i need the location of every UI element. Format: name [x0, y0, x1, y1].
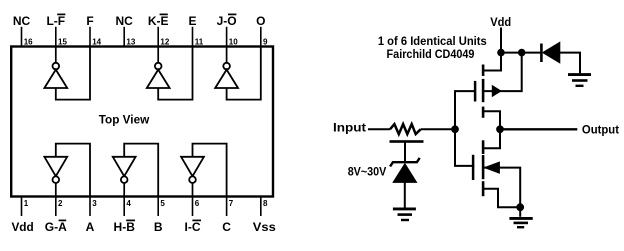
svg-text:15: 15 [58, 37, 67, 46]
svg-text:O: O [256, 14, 265, 28]
svg-text:8: 8 [263, 199, 268, 208]
svg-text:H-B: H-B [114, 220, 136, 234]
svg-text:I-C: I-C [185, 220, 201, 234]
svg-text:NC: NC [116, 14, 134, 28]
svg-text:5: 5 [160, 199, 165, 208]
svg-text:Output: Output [582, 122, 619, 136]
svg-text:J-O: J-O [217, 14, 237, 28]
svg-text:L-F: L-F [46, 14, 65, 28]
svg-text:C: C [222, 220, 231, 234]
svg-text:2: 2 [58, 199, 63, 208]
svg-text:B: B [154, 220, 163, 234]
svg-text:12: 12 [160, 37, 169, 46]
svg-text:Fairchild CD4049: Fairchild CD4049 [387, 47, 475, 61]
svg-text:9: 9 [263, 37, 268, 46]
svg-text:4: 4 [126, 199, 131, 208]
svg-text:11: 11 [195, 37, 204, 46]
svg-text:Vdd: Vdd [11, 220, 33, 234]
svg-text:Vdd: Vdd [490, 15, 511, 29]
svg-text:NC: NC [13, 14, 31, 28]
svg-text:10: 10 [229, 37, 238, 46]
svg-text:3: 3 [92, 199, 97, 208]
svg-text:8V~30V: 8V~30V [348, 165, 387, 179]
svg-text:6: 6 [195, 199, 200, 208]
svg-text:13: 13 [126, 37, 135, 46]
svg-text:1: 1 [24, 199, 29, 208]
svg-text:1 of 6 Identical Units: 1 of 6 Identical Units [378, 34, 487, 48]
svg-text:14: 14 [92, 37, 101, 46]
svg-text:Vss: Vss [253, 220, 276, 234]
svg-text:G-A: G-A [45, 220, 67, 234]
svg-text:16: 16 [24, 37, 33, 46]
svg-text:Input: Input [333, 120, 366, 134]
svg-text:A: A [86, 220, 95, 234]
svg-text:F: F [86, 14, 93, 28]
svg-text:Top View: Top View [99, 112, 150, 126]
svg-text:E: E [188, 14, 196, 28]
svg-text:7: 7 [229, 199, 234, 208]
svg-text:K-E: K-E [148, 14, 169, 28]
